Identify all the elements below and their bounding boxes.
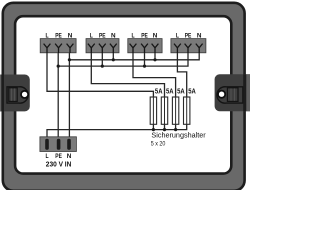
wire N bus	[69, 53, 199, 137]
svg-text:L: L	[45, 153, 48, 160]
mounting tab right	[215, 74, 256, 111]
connector X2 output 2	[86, 39, 119, 53]
connector X4 output 4	[171, 39, 206, 53]
svg-text:L: L	[90, 33, 93, 40]
junction F3 bottom	[174, 128, 177, 131]
connector X0 input	[40, 137, 77, 152]
label X4 L PE N	[176, 33, 202, 40]
junction F2 bottom	[163, 128, 166, 131]
svg-text:PE: PE	[55, 153, 62, 160]
connector X1 output 1	[40, 39, 76, 53]
fuse F2	[161, 97, 167, 124]
svg-text:5A: 5A	[188, 88, 196, 95]
svg-text:L: L	[45, 33, 48, 40]
junction PE3	[143, 65, 146, 68]
label X2 L PE N	[90, 33, 116, 40]
wire L3 to fuse F3	[133, 53, 176, 97]
mounting tab left	[0, 75, 30, 112]
svg-text:N: N	[197, 33, 202, 40]
junction N1	[68, 58, 71, 61]
junction F1 bottom	[152, 128, 155, 131]
label F1 5A	[155, 88, 163, 95]
svg-text:L: L	[176, 33, 179, 40]
svg-text:Sicherungshalter: Sicherungshalter	[151, 132, 206, 139]
svg-text:5 x 20: 5 x 20	[151, 141, 166, 147]
label F3 5A	[177, 88, 185, 95]
svg-text:N: N	[111, 33, 116, 40]
wire PE bus	[58, 53, 188, 137]
svg-text:5A: 5A	[177, 88, 185, 95]
svg-text:5A: 5A	[155, 88, 163, 95]
svg-text:230 V IN: 230 V IN	[46, 161, 72, 168]
svg-text:N: N	[153, 33, 158, 40]
label F4 5A	[188, 88, 196, 95]
wire L input bus to fuse bottoms	[47, 124, 187, 137]
fuse F3	[172, 97, 178, 124]
fuse F4	[184, 97, 190, 124]
svg-text:5A: 5A	[166, 88, 174, 95]
label F2 5A	[166, 88, 174, 95]
junction N3	[153, 58, 156, 61]
svg-text:L: L	[131, 33, 134, 40]
label fuse holder title	[151, 132, 207, 147]
connector X3 output 3	[128, 39, 162, 53]
svg-text:PE: PE	[99, 33, 106, 40]
enclosure outer frame	[3, 3, 245, 191]
label X3 L PE N	[131, 33, 157, 40]
label X0 L PE N	[45, 153, 71, 160]
svg-text:N: N	[68, 33, 73, 40]
svg-text:N: N	[67, 153, 72, 160]
svg-text:PE: PE	[55, 33, 62, 40]
svg-text:PE: PE	[185, 33, 192, 40]
label X1 L PE N	[45, 33, 72, 40]
enclosure inner wall	[15, 16, 231, 173]
junction N2	[112, 58, 115, 61]
svg-text:PE: PE	[141, 33, 148, 40]
junction PE1	[57, 65, 60, 68]
label 230 V IN	[46, 161, 72, 168]
junction PE2	[101, 65, 104, 68]
wire L2 to fuse F2	[91, 53, 164, 97]
fuse F1	[150, 97, 156, 124]
wire L1 to fuse F1	[47, 53, 153, 97]
wire L4 to fuse F4	[177, 53, 186, 97]
